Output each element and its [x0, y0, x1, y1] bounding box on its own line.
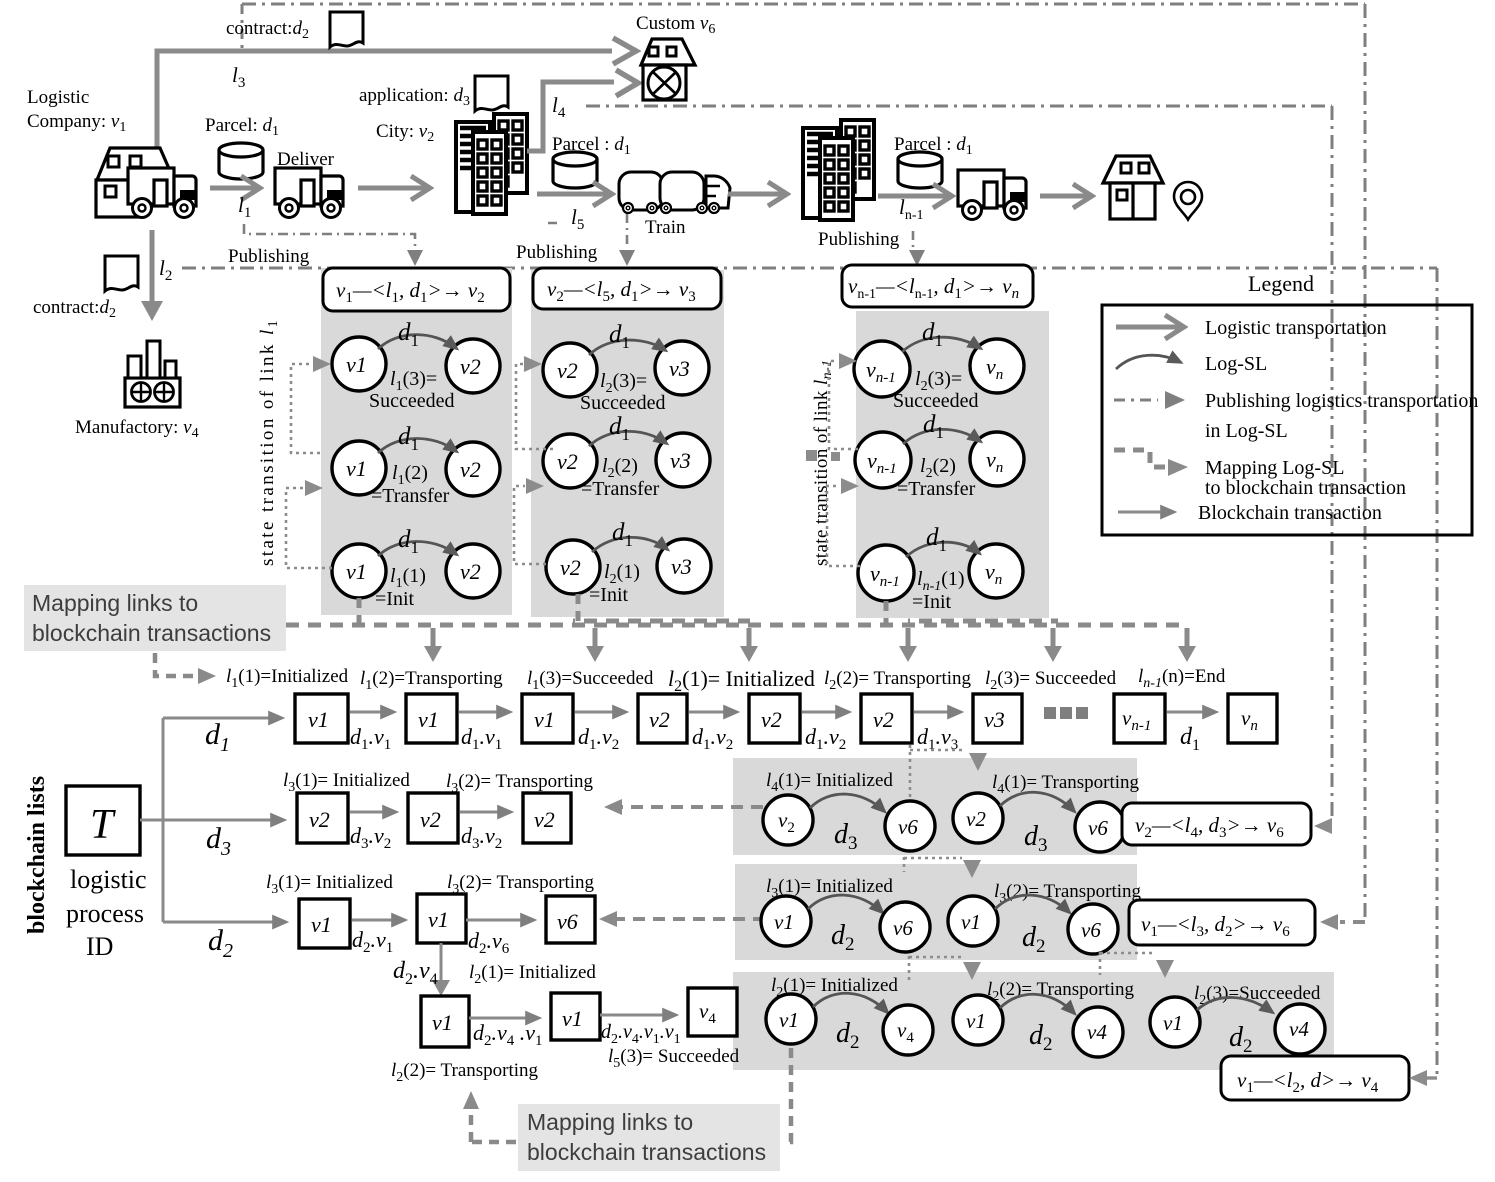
arrow mapping down 6 — [1185, 628, 1190, 648]
svg-text:l3(2)= Transporting: l3(2)= Transporting — [447, 872, 595, 897]
arrow truck3 to house — [1040, 194, 1090, 199]
svg-text:Publishing: Publishing — [516, 242, 598, 263]
wire mapping thick dashed stub panel3 — [884, 601, 889, 624]
svg-text:blockchain transactions: blockchain transactions — [32, 620, 271, 646]
panel1 row3 arc d1 — [378, 541, 456, 556]
band3 gray background — [733, 972, 1334, 1070]
panel2 row1 arc d1 — [589, 340, 665, 355]
svg-text:l1: l1 — [238, 193, 251, 221]
svg-text:v1: v1 — [534, 707, 555, 732]
panel1 row1 arc d1 — [378, 335, 456, 349]
wire dash-dot vertical x1332 down to band1 box — [1331, 106, 1334, 820]
svg-text:v1: v1 — [311, 912, 332, 937]
icon manufactory v4 — [125, 341, 180, 407]
svg-text:v3: v3 — [671, 554, 692, 579]
svg-text:v1: v1 — [308, 707, 329, 732]
svg-text:d1.v2: d1.v2 — [578, 724, 619, 753]
svg-text:Publishing: Publishing — [818, 229, 900, 250]
dotted bracket panel3 rows2to1 — [829, 361, 858, 449]
arrow branch d1 — [163, 717, 282, 720]
svg-text:l4: l4 — [552, 93, 566, 121]
svg-text:v2: v2 — [557, 449, 578, 474]
legend box — [1102, 305, 1472, 535]
arrow row4 2-3 — [600, 1014, 676, 1017]
svg-text:contract:d2: contract:d2 — [226, 18, 309, 42]
svg-text:v1: v1 — [432, 1010, 453, 1035]
arrowhead l4 into custom barn — [616, 70, 638, 96]
panel3 row2 node vn-1 — [855, 432, 911, 488]
dotted bracket panel3 rows3to2 — [827, 486, 860, 566]
svg-text:d2: d2 — [208, 924, 233, 962]
svg-text:v6: v6 — [1088, 816, 1108, 840]
wire l4 publishing dash-dot horizontal — [586, 105, 1332, 108]
wire publishing from train down to panel2 — [548, 214, 627, 248]
svg-text:l3(1)= Initialized: l3(1)= Initialized — [283, 770, 410, 795]
svg-text:ID: ID — [86, 932, 113, 961]
panel 1 gray background — [321, 268, 512, 615]
svg-text:l1(2)=Transporting: l1(2)=Transporting — [360, 668, 503, 693]
svg-text:d3: d3 — [206, 822, 231, 860]
row2 box v2 b — [408, 793, 458, 843]
svg-text:d1: d1 — [1180, 724, 1200, 754]
wire mapping thick dashed stub panel1 — [357, 598, 362, 624]
row1 box v1 b — [406, 694, 457, 743]
svg-text:Succeeded: Succeeded — [893, 390, 979, 412]
arrow row1 4-5 — [689, 711, 737, 714]
wire mapping doubled hatch segment A — [573, 619, 750, 624]
arrow city2 to truck3 l n-1 — [878, 194, 950, 199]
svg-text:l2(3)= Succeeded: l2(3)= Succeeded — [985, 668, 1117, 693]
arrow row2 1-2 — [350, 811, 396, 814]
rounded box v1-l3d2-v6 — [1129, 900, 1315, 945]
row4 box v4 — [688, 988, 737, 1036]
row4 box v1 b — [551, 993, 600, 1040]
svg-text:Manufactory: v4: Manufactory: v4 — [75, 417, 199, 441]
band3 node v1b — [953, 995, 1003, 1045]
panel3 row3 arc d1 — [906, 542, 979, 557]
arrow dashed from band2 into row3 v6 — [615, 917, 765, 921]
band3 node v4a — [883, 1005, 933, 1055]
band2 gray background — [735, 864, 1137, 960]
svg-text:v2: v2 — [560, 555, 581, 580]
row2 box v2 a — [297, 793, 348, 843]
arrow mapping down 1 — [431, 628, 436, 648]
svg-text:v4: v4 — [1087, 1020, 1107, 1044]
arrow dashed up from mapping box2 — [469, 1107, 474, 1142]
legend arrow blockchain transaction — [1118, 511, 1174, 514]
icon train — [619, 172, 730, 213]
svg-text:Mapping links to: Mapping links to — [527, 1109, 693, 1135]
label box mapping links to blockchain transactions (bottom) — [518, 1104, 780, 1171]
panel2 row2 node v2 — [543, 434, 597, 488]
arrow row1 1-2 — [350, 711, 394, 714]
svg-text:state transition of link ln-: state transition of link ln-1 — [811, 359, 835, 566]
icon parcel cylinder 1 — [219, 143, 263, 179]
svg-text:T: T — [90, 802, 116, 848]
svg-text:d2.v4: d2.v4 — [393, 958, 438, 988]
wire mapping doubled hatch segment B — [908, 619, 1058, 624]
icon parcel cylinder 3 — [898, 152, 942, 188]
svg-text:process: process — [66, 899, 144, 928]
arrow row1 vn-1 to vn — [1167, 711, 1216, 714]
panel1 row3 node v1 — [332, 544, 386, 598]
svg-text:l2(1)= Initialized: l2(1)= Initialized — [469, 962, 596, 987]
row1 box vn — [1228, 694, 1277, 743]
band3 node v1c — [1150, 997, 1200, 1047]
dotted bracket panel2 rows2to1 — [516, 364, 553, 449]
rounded box v1-l2d-v4 — [1221, 1056, 1409, 1100]
band3 arc d2 b — [1000, 994, 1074, 1013]
svg-text:Publishing logistics transpo: Publishing logistics transportation — [1205, 390, 1478, 412]
icon deliver truck — [275, 168, 343, 218]
panel3 row1 node vn-1 — [854, 341, 910, 397]
svg-text:Logistic transportation: Logistic transportation — [1205, 317, 1387, 339]
svg-text:Logistic: Logistic — [27, 87, 89, 108]
svg-text:v1: v1 — [418, 707, 439, 732]
svg-text:=Transfer: =Transfer — [581, 478, 660, 500]
arrow train to city2 — [728, 192, 785, 197]
row2 box v2 c — [523, 793, 571, 843]
wire contract l2 down from company — [150, 230, 155, 305]
wire l2 publishing dash-dot horizontal to right edge — [182, 267, 1437, 270]
band3 node v1a — [766, 994, 816, 1044]
panel3 row3 node vn-1 — [858, 545, 914, 601]
row3 box v1 a — [299, 899, 350, 948]
band3 node v4b — [1073, 1007, 1123, 1057]
svg-text:v1: v1 — [346, 559, 367, 584]
icon parcel cylinder 2 — [553, 152, 597, 188]
band1 node v2a — [763, 795, 813, 845]
band3 arc d2 a — [813, 993, 887, 1012]
arrow row4 1-2 — [469, 1017, 539, 1020]
panel2 row3 node v3 — [657, 539, 711, 593]
icon logistic company truck — [128, 168, 196, 218]
arrow branch d3 — [163, 819, 284, 822]
svg-text:v2: v2 — [966, 807, 986, 831]
panel3 row2 arc d1 — [903, 429, 980, 444]
svg-text:l3: l3 — [232, 63, 245, 91]
icon custom barn v6 — [641, 39, 695, 100]
svg-text:d1.v1: d1.v1 — [350, 724, 391, 753]
panel2 row1 node v2 — [543, 343, 597, 397]
band1 gray background — [733, 758, 1137, 855]
arrow row3 1-2 — [352, 919, 405, 922]
row3 box v1 b — [417, 894, 466, 943]
arrow mapping down 3 — [747, 628, 752, 648]
svg-text:=Init: =Init — [912, 591, 951, 613]
wire branch from T — [140, 718, 163, 922]
svg-text:v1—<l3, d2>→ v6: v1—<l3, d2>→ v6 — [1141, 912, 1290, 940]
svg-text:l2(2)= Transporting: l2(2)= Transporting — [824, 668, 972, 693]
svg-text:v2: v2 — [460, 354, 481, 379]
svg-text:state transition of link l1: state transition of link l1 — [257, 318, 281, 566]
legend dash-dot publishing — [1114, 399, 1158, 402]
wire dash-dot vertical x1437 down to band3 box — [1436, 268, 1439, 1076]
arrowhead contract into custom barn — [613, 38, 636, 64]
arrow branch d2 — [163, 921, 286, 924]
label box mapping links to blockchain transactions (top-left) — [24, 585, 286, 651]
document icon contract d2 top — [330, 12, 363, 47]
svg-text:v2: v2 — [420, 807, 441, 832]
dashed tail into box2 — [1340, 920, 1365, 924]
wire l4 from city right side up to barn — [527, 82, 614, 151]
svg-text:l1(3)=Succeeded: l1(3)=Succeeded — [527, 668, 654, 693]
svg-text:d1.v2: d1.v2 — [692, 724, 733, 753]
row4 box v1 a — [421, 996, 469, 1047]
svg-text:to blockchain transaction: to blockchain transaction — [1205, 477, 1406, 499]
band2 arc d2 b — [995, 895, 1069, 912]
row1 box v3 — [973, 694, 1022, 743]
panel2 row3 arc d1 — [592, 537, 667, 552]
dotted bracket panel1 rows2to1 — [291, 364, 320, 453]
svg-text:v1: v1 — [961, 910, 981, 934]
arrowhead into box1 from dashdot — [1314, 818, 1332, 834]
wire dashed from mapping box2 left — [471, 1140, 516, 1145]
panel 3 gray background — [856, 311, 1049, 618]
row3 box v6 — [546, 896, 595, 943]
svg-text:City: v2: City: v2 — [376, 121, 434, 145]
arrowhead into box3 from dashdot — [1409, 1070, 1427, 1086]
svg-text:Custom v6: Custom v6 — [636, 13, 715, 37]
band2 arc d2 a — [808, 895, 882, 912]
panel3 row2 node vn — [970, 432, 1024, 486]
svg-text:logistic: logistic — [70, 865, 147, 894]
svg-text:Company: v1: Company: v1 — [27, 111, 126, 135]
svg-text:l5(3)= Succeeded: l5(3)= Succeeded — [608, 1046, 740, 1071]
wire publishing bracket truck1 to panel1 — [244, 224, 415, 248]
arrowhead publishing down into panel2 header — [619, 250, 635, 266]
svg-text:v2: v2 — [761, 707, 782, 732]
wire mapping links main thick dashed line — [286, 623, 1187, 628]
header box panel2 v2-l5d1-v3 — [533, 268, 721, 309]
svg-text:v2: v2 — [460, 559, 481, 584]
band1 node v6a — [885, 801, 935, 851]
svg-text:d2.v4.v1.v1: d2.v4.v1.v1 — [601, 1021, 681, 1047]
document icon application d3 — [475, 76, 508, 111]
svg-text:v2—<l5, d1>→ v3: v2—<l5, d1>→ v3 — [547, 277, 696, 305]
svg-text:v2—<l4, d3>→ v6: v2—<l4, d3>→ v6 — [1135, 813, 1284, 841]
band3 arc d2 c — [1197, 997, 1272, 1012]
band3 node v4c — [1275, 1004, 1325, 1054]
svg-text:=Init: =Init — [589, 584, 628, 606]
dotted connector band2 to band3 b — [1100, 952, 1156, 975]
svg-text:=Init: =Init — [375, 588, 414, 610]
wire mapping thick dashed stub panel2 — [576, 594, 581, 624]
svg-text:l3(1)= Initialized: l3(1)= Initialized — [266, 872, 393, 897]
svg-text:v3: v3 — [984, 707, 1005, 732]
panel1 row2 arc d1 — [378, 438, 456, 453]
band2 node v1b — [948, 896, 998, 946]
arrow row1 3-4 — [575, 711, 626, 714]
arrow row1 2-3 — [459, 711, 510, 714]
svg-text:v1: v1 — [562, 1006, 583, 1031]
arrow row2 2-3 — [460, 811, 511, 814]
icon city buildings 2 — [803, 120, 874, 220]
svg-text:Mapping Log-SL: Mapping Log-SL — [1205, 457, 1344, 479]
svg-text:l1(1)=Initialized: l1(1)=Initialized — [226, 666, 349, 691]
svg-text:v1: v1 — [1163, 1011, 1183, 1035]
svg-text:v2: v2 — [309, 807, 330, 832]
row1 box v1 c — [522, 694, 573, 743]
arrow row3 2-3 — [466, 919, 534, 922]
legend arc log-sl — [1116, 355, 1180, 369]
icon destination house — [1103, 156, 1163, 219]
arrow mapping down 4 — [906, 628, 911, 648]
arrow dashed from band1 into row2 — [620, 805, 763, 809]
panel3 row3 node vn — [969, 544, 1023, 598]
wire dash-dot vertical right x1365 down to band2 box — [1364, 4, 1367, 918]
icon city buildings v2 — [456, 114, 527, 214]
arrow mapping down 5 — [1051, 628, 1056, 648]
svg-text:l2(2)= Transporting: l2(2)= Transporting — [391, 1060, 539, 1085]
svg-text:Succeeded: Succeeded — [580, 392, 666, 414]
arrow deliver truck to city — [358, 186, 428, 191]
svg-text:blockchain lists: blockchain lists — [24, 776, 50, 934]
svg-text:Mapping links to: Mapping links to — [32, 590, 198, 616]
panel2 row1 node v3 — [655, 341, 709, 395]
arrow row3 v1b down to row4 — [440, 943, 443, 982]
svg-text:ln-1: ln-1 — [899, 195, 924, 223]
panel2 row2 arc d1 — [589, 431, 666, 446]
svg-text:in Log-SL: in Log-SL — [1205, 420, 1288, 442]
svg-text:Succeeded: Succeeded — [369, 390, 455, 412]
legend arrow logistic transportation — [1116, 325, 1182, 330]
arrow city to train l5 — [537, 192, 610, 197]
wire contract l3: company up and right to barn — [157, 51, 612, 176]
svg-text:Publishing: Publishing — [228, 246, 310, 267]
svg-text:d1.v2: d1.v2 — [805, 724, 846, 753]
band1 arc d3 a — [810, 794, 884, 811]
svg-text:d3.v2: d3.v2 — [350, 823, 391, 852]
row1 box v2 a — [638, 694, 687, 743]
arrow logistic transportation truck1 to deliver truck — [210, 186, 258, 191]
svg-text:d2.v4 .v1: d2.v4 .v1 — [473, 1020, 543, 1049]
svg-text:d2.v1: d2.v1 — [352, 927, 393, 956]
svg-text:v1: v1 — [428, 907, 449, 932]
band1 node v2b — [953, 793, 1003, 843]
arrow row1 6-7 — [914, 711, 961, 714]
svg-text:l5: l5 — [571, 205, 584, 233]
svg-text:d2.v6: d2.v6 — [468, 928, 510, 957]
box T logistic process ID — [66, 786, 140, 855]
svg-text:v2: v2 — [649, 707, 670, 732]
dotted bracket panel2 rows3to2 — [514, 486, 546, 564]
rounded box v2-l4d3-v6 — [1122, 803, 1311, 845]
svg-text:d1: d1 — [205, 718, 230, 756]
svg-text:v6: v6 — [893, 916, 913, 940]
panel 2 gray background — [531, 270, 724, 617]
panel2 row3 node v2 — [546, 540, 600, 594]
header box panel3 vn-1 — [842, 265, 1033, 307]
svg-text:v4: v4 — [1289, 1017, 1309, 1041]
svg-text:v3: v3 — [670, 448, 691, 473]
icon logistic company house — [96, 148, 174, 217]
band2 node v6b — [1068, 904, 1118, 954]
svg-text:v1: v1 — [346, 456, 367, 481]
panel1 row2 node v2 — [446, 442, 500, 496]
svg-text:v3: v3 — [669, 356, 690, 381]
legend dashed mapping — [1114, 450, 1166, 467]
svg-text:v6: v6 — [557, 909, 578, 934]
svg-text:v1—<l1, d1>→ v2: v1—<l1, d1>→ v2 — [336, 278, 485, 306]
dotted connector band1 to band2 — [904, 857, 962, 872]
icon truck 3 — [958, 170, 1026, 220]
row1 box vn-1 — [1114, 694, 1165, 743]
svg-text:v1: v1 — [779, 1008, 799, 1032]
wire dash-dot vertical from top line to contract wire — [241, 4, 244, 50]
svg-text:v2: v2 — [557, 358, 578, 383]
document icon contract d2 left — [105, 256, 138, 291]
svg-text:v1: v1 — [774, 910, 794, 934]
svg-text:v1: v1 — [346, 352, 367, 377]
row1 box v2 c — [861, 694, 912, 743]
svg-text:v6: v6 — [898, 815, 918, 839]
header box panel1 v1-l1d1-v2 — [323, 268, 510, 311]
row1 box v2 b — [749, 694, 800, 743]
wire publishing dash-dot top line l3 — [242, 3, 1365, 6]
svg-text:v1: v1 — [966, 1009, 986, 1033]
svg-text:d1.v1: d1.v1 — [461, 724, 502, 753]
panel1 row1 node v2 — [446, 339, 500, 393]
arrow row1 5-6 — [802, 711, 849, 714]
svg-text:l2(1)= Initialized: l2(1)= Initialized — [668, 666, 815, 695]
dotted connector row1 v2 to band1 — [909, 745, 912, 798]
svg-text:ln-1(n)=End: ln-1(n)=End — [1138, 666, 1226, 691]
panel1 row3 node v2 — [446, 544, 500, 598]
arrow mapping down 2 — [593, 628, 598, 648]
wire publishing from city2 down to panel3 — [912, 231, 915, 248]
band2 node v1a — [761, 896, 811, 946]
dotted bracket panel1 rows3to2 — [286, 488, 332, 568]
wire dashed from band3 v1 down to mapping box2 — [783, 1048, 791, 1142]
svg-text:d3.v2: d3.v2 — [461, 823, 502, 852]
band2 node v6a — [880, 902, 930, 952]
panel2 row2 node v3 — [656, 433, 710, 487]
arrowhead l2 down into manufactory — [141, 301, 163, 321]
band1 arc d3 b — [1000, 792, 1074, 811]
dotted connector band2 to band3 a — [909, 956, 962, 980]
panel3 row1 arc d1 — [902, 337, 980, 352]
svg-text:d1.v3: d1.v3 — [917, 724, 958, 753]
svg-text:=Transfer: =Transfer — [897, 478, 976, 500]
svg-text:v2: v2 — [873, 707, 894, 732]
svg-text:Log-SL: Log-SL — [1205, 353, 1267, 375]
panel1 row1 node v1 — [332, 337, 386, 391]
svg-text:Parcel: d1: Parcel: d1 — [205, 115, 279, 139]
row1 box v1 a — [295, 694, 348, 743]
ellipsis dots — [1044, 707, 1088, 719]
arrowhead publishing down into panel3 header — [909, 250, 925, 266]
gray dash squares between panel2 and panel3 — [806, 450, 817, 461]
svg-text:=Transfer: =Transfer — [371, 485, 450, 507]
svg-text:application: d3: application: d3 — [359, 85, 470, 109]
svg-text:blockchain transactions: blockchain transactions — [527, 1139, 766, 1165]
svg-text:Blockchain transaction: Blockchain transaction — [1198, 502, 1382, 524]
svg-text:Legend: Legend — [1248, 271, 1314, 296]
panel3 row1 node vn — [970, 339, 1024, 393]
svg-text:Train: Train — [645, 217, 686, 238]
svg-text:v6: v6 — [1081, 918, 1101, 942]
svg-text:v1—<l2, d>→ v4: v1—<l2, d>→ v4 — [1237, 1068, 1379, 1096]
band1 node v6b — [1075, 802, 1125, 852]
arrowhead publishing down into panel1 header — [407, 250, 423, 266]
panel1 row2 node v1 — [332, 441, 386, 495]
svg-text:v2: v2 — [534, 807, 555, 832]
svg-text:v2: v2 — [460, 457, 481, 482]
svg-text:contract:d2: contract:d2 — [33, 297, 116, 321]
icon location pin — [1174, 182, 1202, 220]
wire mapping dashed elbow to l1(1) — [155, 653, 196, 676]
